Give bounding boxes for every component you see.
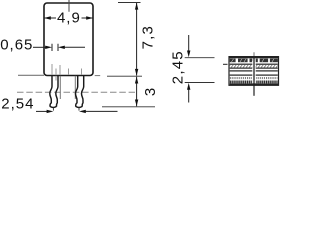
- rear right lead (hidden line): [74, 76, 76, 99]
- svg-text:4,9: 4,9: [57, 10, 81, 27]
- dimension 4,9 left arrowhead: [44, 16, 51, 19]
- side view lead top stub: [253, 52, 255, 57]
- extension line mid (body bottom): [107, 75, 142, 77]
- svg-text:2,45: 2,45: [170, 50, 187, 84]
- dimension 3 top arrowhead: [135, 77, 138, 84]
- dimension 4,9 right arrowhead: [86, 16, 93, 19]
- dimension 0,65 right tick: [57, 44, 59, 51]
- dimension 2,54 right tick: [78, 108, 80, 111]
- side view lead clearance gap: [252, 59, 255, 84]
- extension line side view bottom face: [185, 82, 215, 84]
- dimension 2,45 top arrowhead: [187, 51, 190, 58]
- dimension 2,54 right arrowhead: [79, 110, 86, 113]
- dimension 2,54 right shaft: [86, 110, 118, 112]
- dimension 0,65 left arrowhead: [45, 46, 52, 49]
- dimension 4,9 shafts: [44, 17, 93, 19]
- dimension 3 bottom arrowhead: [135, 100, 138, 107]
- dimension 7,3 line: [136, 3, 138, 76]
- dimension 0,65 right arrowhead: [58, 46, 65, 49]
- capacitor body outline (front view): [44, 3, 93, 76]
- front left lead (crimped): [50, 76, 58, 108]
- extension line bottom (lead tips): [102, 106, 155, 108]
- reference line left at body bottom level: [18, 74, 44, 76]
- capacitor body (side view, layered): [229, 57, 279, 86]
- dimension 0,65 left tick: [51, 44, 53, 51]
- dimension 2,54 left arrowhead: [47, 110, 54, 113]
- extension line top (body top): [118, 2, 141, 4]
- svg-text:7,3: 7,3: [140, 25, 157, 49]
- center line mark at body top: [68, 0, 70, 12]
- reference dash right of body: [95, 75, 101, 77]
- dimension 3 line: [136, 77, 138, 107]
- dimension 2,45 bottom arrowhead: [187, 83, 190, 90]
- hidden lead stubs inside body: [52, 64, 82, 75]
- rear left lead (hidden line): [59, 76, 61, 99]
- dimension 2,45 bottom shaft: [188, 89, 190, 103]
- svg-text:3: 3: [142, 88, 159, 96]
- dimension 7,3 bottom arrowhead: [135, 69, 138, 76]
- rear left lead short stub: [55, 76, 57, 81]
- dimension 0,65 left shaft: [33, 46, 46, 48]
- dimension 2,45 top shaft: [188, 35, 190, 51]
- dimension 2,54 left tick: [52, 108, 54, 111]
- side view lead bottom stub: [253, 85, 255, 96]
- side view lead through body: [253, 57, 255, 85]
- dimension 7,3 top arrowhead: [135, 3, 138, 10]
- dimension 0,65 right shaft: [65, 46, 86, 48]
- svg-text:0,65: 0,65: [0, 37, 33, 54]
- dimension 2,54 left shaft: [36, 110, 48, 112]
- front right lead (crimped): [76, 76, 84, 108]
- dashed seating plane line: [17, 91, 135, 93]
- extension line side view top face: [185, 57, 215, 59]
- svg-text:2,54: 2,54: [1, 96, 34, 113]
- small dash left of side view: [223, 63, 228, 65]
